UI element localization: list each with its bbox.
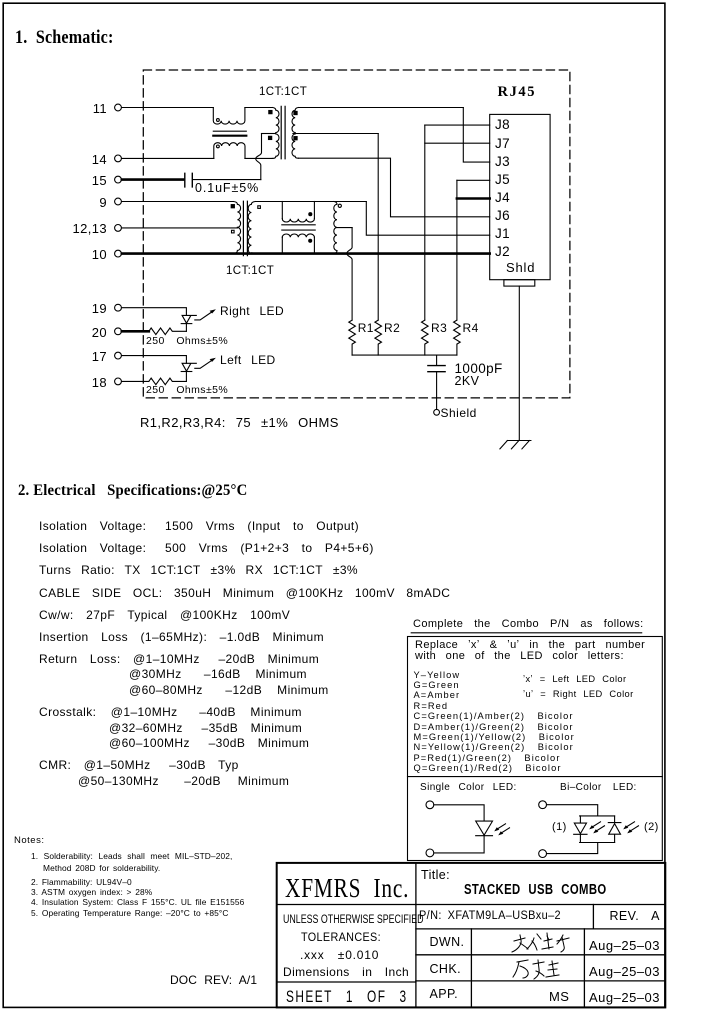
resistor R3 [422,320,429,355]
TX primary bottom dot [269,136,272,139]
pin label J4 [495,191,510,205]
title block DWN [430,936,465,949]
pin label 19 [65,302,107,315]
pin 11 terminal [115,104,122,111]
label 1000pF [455,362,503,376]
wire pin9 to RX transformer [122,201,234,203]
title block Title: [421,869,450,882]
pin 15 terminal [115,176,122,183]
resistor R6 250 Ohms [149,378,187,385]
RX choke bottom dot [309,239,312,242]
RJ45 shield tab [504,280,535,286]
wire choke bottom to transformer bottom [245,157,272,159]
title block outer frame [277,863,666,1008]
note 1 [31,852,232,860]
callout arrow to Left LED [195,360,213,369]
RJ45 Shld label [506,261,535,274]
label 2KV [455,375,480,388]
wire pin17 to LED2 [122,356,187,364]
RX primary top dot [231,205,234,208]
RX choke top winding [282,219,314,222]
wire choke to transformer top [245,107,273,109]
label 0.1uF±5% [195,182,259,195]
pin 19 terminal [115,304,122,311]
wire J4 thick from R4 column [457,197,490,200]
pin 10 terminal [115,250,122,257]
TX primary top dot [269,111,272,114]
pin 9 terminal [115,198,122,205]
label DOC REV [170,974,257,986]
wire pin15 thick segment [122,178,183,181]
TX primary center tap drop wire with hop [256,134,262,180]
notes heading [14,836,44,846]
pin label J1 [495,227,510,241]
wire J7 from R3 column [425,142,490,144]
combo x u legend [523,675,626,684]
wire R3 column [424,125,426,320]
title block dimensions [283,966,409,978]
resistor R5 250 Ohms [149,328,187,335]
pin label 10 [65,248,107,261]
wire pin19 to LED1 [122,308,187,316]
title block xxx [300,949,379,961]
TX transformer secondary top winding [292,108,298,133]
spec line isolation voltage 2 [39,542,374,554]
pin 14 terminal [115,155,122,162]
wire J8 from R3 column [425,124,490,126]
label 1CT:1CT bottom [226,266,274,278]
pin label J3 [495,155,510,169]
title block P/N [419,911,561,923]
TX choke bottom winding [214,143,245,159]
spec line Cw/w [39,609,290,621]
wire shield tab to chassis [518,286,520,440]
RX shunt winding L1 [334,202,337,254]
label single color LED [420,783,517,793]
label Right LED [220,305,284,317]
callout arrow to Right LED [195,311,213,320]
wire R2 column [377,134,379,321]
spec line insertion loss [39,631,324,643]
bicolor LED light arrows 1 [592,822,605,832]
bicolor LED diode 1 [574,816,587,843]
TX secondary bottom dot [294,137,297,140]
wire pin20 thick [122,330,149,333]
pin label 17 [65,350,107,363]
pin 17 terminal [115,352,122,359]
RX choke bottom risers to bus [282,237,314,253]
bicolor LED terminal top [539,801,547,809]
wire bus to C2 [436,355,438,365]
combo box title [413,619,644,630]
wire LED2 cathode down [185,372,187,382]
TX common-mode choke T1 top winding [213,108,245,125]
pin label J7 [495,137,510,151]
pin label 15 [65,174,107,187]
TX secondary top dot [294,111,297,114]
label R1 [358,322,374,334]
wire J5 from R4 column [457,179,490,181]
label Left LED [220,354,276,366]
TX transformer core [281,106,285,159]
wire TX secondary bottom to J6 [298,158,489,217]
signature DWN (Chinese handwriting) [512,933,569,952]
pin label J8 [495,118,510,132]
TX choke bottom polarity dot [217,145,220,148]
combo box text replace [415,640,645,651]
spec line crosstalk [39,706,302,718]
title block XFMRS Inc. [285,875,409,902]
RX choke T4 left riser [281,202,283,219]
wire C2 to shield node [436,372,438,409]
pin label 11 [65,102,107,115]
wire shunt center tap to R1 column [337,227,352,229]
TX transformer T2 primary top winding [273,108,279,133]
pin label 9 [65,196,107,209]
title block right row lines [416,905,665,981]
wire RX secondary top to shunt winding and J1 column [255,201,366,203]
single color LED light arrows [497,824,510,834]
RX transformer primary winding lower half [233,227,240,253]
single color LED wiring [434,805,484,853]
pin label 18 [65,376,107,389]
label (2) [644,822,659,833]
capacitor C1 0.1uF plates [185,173,193,187]
TX transformer primary bottom winding [272,134,279,158]
bicolor LED wiring [547,805,598,854]
combo box title underline [411,632,642,634]
wire pin14 to choke bottom [122,157,214,159]
title block REV [610,910,660,923]
wire pin10 J2 bus thick [122,252,490,255]
LED D1 cathode bar [181,323,192,325]
TX primary center tap lead [262,133,276,135]
label 1CT:1CT top [259,87,307,99]
title block STACKED USB COMBO [464,883,607,898]
pin label J2 [495,245,510,259]
note 4 [31,898,244,906]
spec line isolation voltage 1 [39,520,359,532]
bicolor LED bracket [580,816,615,843]
wire TX secondary center tap to R2 column [293,133,378,135]
title block tolerances [301,931,381,943]
resistor R4 [454,320,461,355]
combo color letter list [414,671,461,680]
label RJ45 [498,85,537,100]
heading section 1 [15,29,114,48]
label (1) [552,822,567,833]
pin label J6 [495,209,510,223]
RX transformer T3 primary winding upper half [233,202,240,228]
TX choke core lines [213,130,246,132]
label bicolor LED [560,783,637,793]
LED D2 Left LED [182,363,196,371]
label 250 Ohms±5% upper [146,336,228,347]
spec line return loss [39,653,319,665]
shunt winding dot [338,204,341,207]
single color LED diode [476,821,493,836]
TX transformer secondary bottom winding [292,134,298,158]
title block column dividers [471,905,593,1008]
title block main vertical divider [415,863,417,1008]
bicolor LED diode 2 [608,816,621,843]
RX primary center tap dot [232,230,235,233]
pin 12,13 terminal [115,225,122,232]
wire pin18 [122,380,149,382]
capacitor C2 1000pF plates [428,366,445,372]
wire pin11 to TX choke [122,107,213,109]
wire RX top to J1 [366,202,489,236]
wire LED1 cathode down [185,324,187,332]
pin 20 terminal [115,328,122,335]
title block unless otherwise [283,915,424,927]
note 2 [31,878,132,886]
title block MS [549,990,569,1003]
RX transformer core [243,201,247,255]
spec line CMR [39,759,239,771]
wire cap to center tap [194,179,261,181]
pin label 12,13 [65,222,107,235]
TX choke top polarity dot [217,119,220,122]
resistor R2 [375,320,382,355]
title block dates [589,939,660,952]
RX choke top dot [309,213,312,216]
bicolor LED light arrows 2 [626,822,639,832]
RX secondary top dot [258,206,261,209]
spec line OCL [39,587,450,599]
pin label 20 [65,326,107,339]
wire pin12,13 to RX primary center tap [122,227,238,229]
heading section 2 [18,483,247,499]
bicolor LED terminal bottom [539,850,547,858]
RX choke bottom winding [282,234,314,237]
wire termination bus [352,354,457,356]
RX transformer secondary winding [248,202,255,254]
LED D2 cathode bar [181,371,192,373]
node Shield terminal [434,409,440,415]
wire R4 column [456,180,458,320]
label R3 [431,322,447,334]
note 5 [31,909,229,917]
pin label 14 [65,153,107,166]
RX choke right riser [313,202,315,219]
RX choke core lines [282,225,315,230]
wire R1 column with hop over J2 bus [347,228,352,321]
title block APP [430,988,458,1001]
title block CHK [430,963,461,976]
combo box divider [408,776,663,778]
label R4 [463,322,479,334]
pin label J5 [495,173,510,187]
title block left row lines [277,905,416,983]
spec line turns ratio [39,564,358,576]
single color LED terminal bottom [426,849,434,857]
chassis ground [500,441,531,449]
label 250 Ohms±5% lower [146,385,228,396]
note 3 [31,888,152,896]
combo box frame [408,637,663,861]
label R2 [384,322,400,334]
title block sheet [286,989,408,1006]
wire TX secondary top to J3 column [298,107,463,109]
label Shield [441,407,477,419]
label R1,R2,R3,R4: 75 ±1% OHMS [140,416,339,429]
resistor R1 [349,320,356,355]
single color LED terminal top [426,801,434,809]
pin 18 terminal [115,378,122,385]
RJ45 connector body [490,114,550,279]
node TX top column to J3 [463,108,489,163]
signature CHK (Chinese handwriting) [513,960,559,979]
LED D1 Right LED [182,315,196,323]
schematic dashed boundary [143,70,570,398]
